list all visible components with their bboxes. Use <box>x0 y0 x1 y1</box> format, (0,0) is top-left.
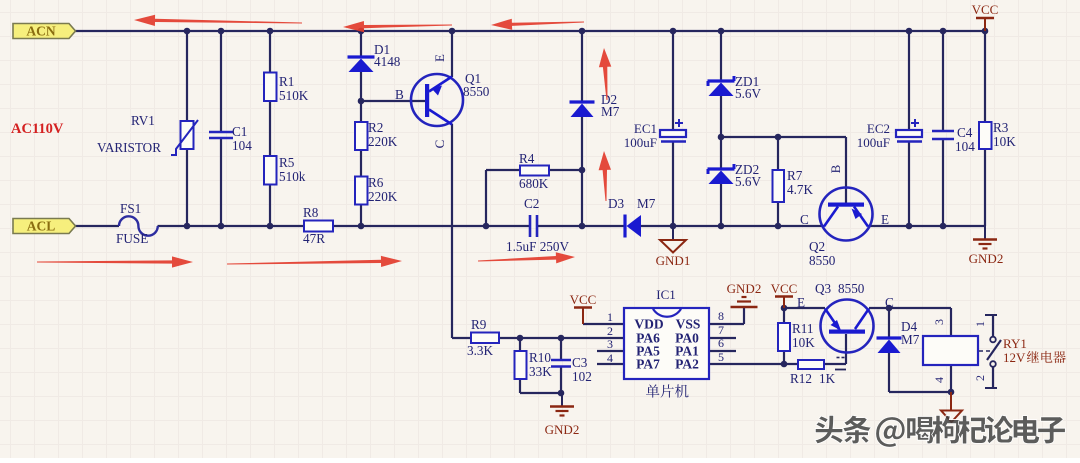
IC U1 microcontroller box <box>624 308 709 379</box>
svg-text:R1: R1 <box>279 74 294 89</box>
varistor RV1 <box>181 121 194 149</box>
svg-text:M7: M7 <box>901 332 920 347</box>
wire R10 column <box>519 338 521 351</box>
svg-text:R8: R8 <box>303 205 319 220</box>
svg-text:C3: C3 <box>572 355 588 370</box>
svg-text:VDD: VDD <box>634 317 663 332</box>
svg-text:R10: R10 <box>529 350 551 365</box>
svg-text:1: 1 <box>607 310 613 324</box>
wire relay pin 3 lead <box>950 308 952 336</box>
wire VCC to IC1 pin 1 <box>583 323 624 325</box>
svg-text:104: 104 <box>955 139 975 154</box>
svg-text:VARISTOR: VARISTOR <box>97 140 161 155</box>
resistor R9 <box>471 333 499 344</box>
svg-text:8550: 8550 <box>838 281 865 296</box>
svg-text:4: 4 <box>607 351 613 365</box>
wire C2 to D3 <box>538 225 624 227</box>
wire R8 to C2 <box>333 225 529 227</box>
electrolytic capacitor EC1 <box>660 130 686 137</box>
wire Q2 emitter to GND2 rail <box>868 225 985 227</box>
IC1 pin 7 stub <box>709 337 736 339</box>
wire C4 column <box>942 31 944 131</box>
capacitor C2 <box>529 215 532 237</box>
resistor R1 <box>264 73 277 102</box>
svg-text:2: 2 <box>607 324 613 338</box>
junction dots on ACL rail <box>184 223 191 230</box>
wire Q1 collector down to R9 row <box>451 124 453 338</box>
Q3 base pin mark <box>835 369 846 371</box>
zener diode ZD1 <box>708 79 735 82</box>
svg-text:B: B <box>395 87 404 102</box>
fuse FS1 <box>119 216 158 235</box>
junction dot C3 bottom <box>558 390 565 397</box>
svg-text:680K: 680K <box>519 176 549 191</box>
red arrow ACL rail rightward 2 <box>227 256 402 267</box>
svg-text:4.7K: 4.7K <box>787 182 813 197</box>
svg-text:R2: R2 <box>368 120 383 135</box>
svg-text:R9: R9 <box>471 317 487 332</box>
svg-text:C: C <box>800 212 809 227</box>
red arrow top rail leftward 2 <box>343 21 452 32</box>
svg-text:10K: 10K <box>792 335 815 350</box>
svg-text:VSS: VSS <box>676 317 701 332</box>
svg-text:R11: R11 <box>792 321 814 336</box>
IC1 pin 4 stub <box>597 363 624 365</box>
svg-text:8: 8 <box>718 309 724 323</box>
svg-text:ACN: ACN <box>26 24 55 39</box>
junction dot Q1 base at D1 <box>358 98 365 105</box>
ground GND2 at IC1 pin 8 <box>742 296 747 298</box>
svg-text:IC1: IC1 <box>656 287 676 302</box>
resistor R5 <box>264 156 277 185</box>
svg-text:12V: 12V <box>1003 350 1026 365</box>
svg-text:FS1: FS1 <box>120 201 141 216</box>
svg-text:10K: 10K <box>993 134 1016 149</box>
relay RY1 coil <box>923 336 978 365</box>
resistor R12 <box>798 360 824 369</box>
svg-text:4: 4 <box>932 377 946 383</box>
junction dot relay pin 4 <box>948 389 955 396</box>
terminal ACL <box>13 219 76 234</box>
relay switch blade <box>987 340 1001 360</box>
wire zener junction to Q2 base <box>721 136 846 138</box>
svg-text:220K: 220K <box>368 189 398 204</box>
svg-text:D3: D3 <box>608 196 625 211</box>
svg-text:EC2: EC2 <box>867 121 890 136</box>
capacitor C3 <box>551 359 571 362</box>
svg-text:7: 7 <box>718 323 724 337</box>
junction dots on top rail <box>184 28 191 35</box>
watermark toutiao <box>815 415 843 443</box>
capacitor C1 <box>209 131 233 134</box>
wire IC1 pin 5 to R12 <box>709 363 798 365</box>
svg-text:C1: C1 <box>232 124 247 139</box>
svg-text:R4: R4 <box>519 151 535 166</box>
svg-text:3: 3 <box>932 319 946 325</box>
junction dot R11 bottom <box>781 361 788 368</box>
svg-text:M7: M7 <box>601 104 620 119</box>
svg-text:RV1: RV1 <box>131 113 155 128</box>
svg-text:GND2: GND2 <box>727 281 762 296</box>
junction dot R4 at D2 column <box>579 167 586 174</box>
svg-text:PA7: PA7 <box>636 357 660 372</box>
diode D2 <box>570 100 595 103</box>
svg-text:R7: R7 <box>787 168 803 183</box>
IC1 pin 6 stub <box>709 350 736 352</box>
svg-text:GND2: GND2 <box>545 422 580 437</box>
resistor R7 <box>773 170 785 202</box>
svg-text:M7: M7 <box>637 196 656 211</box>
svg-text:ACL: ACL <box>27 219 56 234</box>
wire R10 to C3 ground row <box>520 392 562 394</box>
svg-text:3: 3 <box>607 337 613 351</box>
svg-text:6: 6 <box>718 336 724 350</box>
svg-text:GND1: GND1 <box>656 253 691 268</box>
svg-text:C2: C2 <box>524 196 539 211</box>
wire R3 column <box>984 31 986 122</box>
IC1 pin 8 stub to GND2 <box>709 323 744 325</box>
svg-text:8550: 8550 <box>809 253 836 268</box>
svg-text:102: 102 <box>572 369 592 384</box>
svg-text:4148: 4148 <box>374 54 401 69</box>
transistor Q2 <box>820 188 873 241</box>
wire EC1 column <box>672 31 674 130</box>
wire EC2 column <box>908 31 910 130</box>
wire R4 left branch <box>486 169 520 171</box>
red arrow upward at D2 <box>599 48 611 100</box>
ground below relay <box>950 392 952 410</box>
resistor R2 <box>355 122 368 150</box>
wire ACL rail left segment <box>75 225 119 227</box>
svg-text:1K: 1K <box>819 371 836 386</box>
resistor R3 <box>979 122 992 149</box>
wire D3 to Q2 collector <box>640 225 824 227</box>
wire R1 R5 column <box>269 31 271 73</box>
red arrow top rail leftward 1 <box>134 15 302 26</box>
svg-text:510K: 510K <box>279 88 309 103</box>
svg-text:E: E <box>432 54 447 62</box>
wire R9 to IC1 pin 2 <box>499 337 624 339</box>
wire R7 column <box>777 137 779 170</box>
svg-text:GND2: GND2 <box>969 251 1004 266</box>
svg-text:R12: R12 <box>790 371 812 386</box>
svg-text:5: 5 <box>718 350 724 364</box>
resistor R8 <box>304 221 333 232</box>
svg-text:Q3: Q3 <box>815 281 832 296</box>
wire Q1 emitter to top rail <box>451 31 453 77</box>
svg-text:AC110V: AC110V <box>11 121 64 137</box>
wire R4 right to D2 column <box>549 169 582 171</box>
wire Q3 collector to relay pin 3 <box>869 307 951 309</box>
wire R12 to Q3 base <box>824 363 846 365</box>
svg-text:100uF: 100uF <box>624 135 657 150</box>
svg-text:B: B <box>828 164 843 173</box>
transistor Q1 <box>411 74 463 126</box>
svg-text:1: 1 <box>973 321 987 327</box>
svg-text:33K: 33K <box>529 364 552 379</box>
svg-text:VCC: VCC <box>972 2 999 17</box>
svg-text:E: E <box>797 295 805 310</box>
wire R11 column <box>783 308 785 323</box>
wire top ACN rail <box>75 30 985 32</box>
svg-text:47R: 47R <box>303 231 325 246</box>
svg-text:3.3K: 3.3K <box>467 343 493 358</box>
wire D4 to relay pin 4 row <box>889 391 951 393</box>
resistor R11 <box>778 323 790 351</box>
svg-text:R5: R5 <box>279 155 295 170</box>
transistor Q3 <box>821 300 874 353</box>
relay switch contact pin 2 <box>990 361 996 367</box>
svg-text:C4: C4 <box>957 125 973 140</box>
resistor R6 <box>355 177 368 205</box>
wire C1 column <box>220 31 222 132</box>
relay switch contact pin 1 <box>985 314 997 316</box>
wire relay pin 4 lead <box>950 365 952 392</box>
junction dot zener divider <box>718 134 725 141</box>
junction dot C3 top <box>558 335 565 342</box>
svg-text:Q2: Q2 <box>809 239 825 254</box>
junction dot R7 top <box>775 134 782 141</box>
svg-text:EC1: EC1 <box>634 121 657 136</box>
wire Q1 base <box>361 100 425 102</box>
wire ACL fuse to R8 <box>158 225 305 227</box>
junction dot D4 top <box>886 305 893 312</box>
ground GND1 <box>672 226 674 240</box>
wire C3 column <box>560 338 562 359</box>
diode D1 <box>348 55 375 58</box>
svg-text:1.5uF 250V: 1.5uF 250V <box>506 239 569 254</box>
svg-text:510k: 510k <box>279 169 306 184</box>
wire ZD1 ZD2 column <box>720 31 722 81</box>
red arrow upward at D3 <box>599 151 611 201</box>
svg-text:5.6V: 5.6V <box>735 86 761 101</box>
svg-text:R3: R3 <box>993 120 1009 135</box>
junction dot R10 top <box>517 335 524 342</box>
junction dot VCC Q3 emitter <box>781 305 788 312</box>
svg-text:E: E <box>881 212 889 227</box>
diode D3 <box>623 215 626 238</box>
svg-text:8550: 8550 <box>463 84 490 99</box>
electrolytic capacitor EC2 <box>896 130 922 137</box>
svg-text:220K: 220K <box>368 134 398 149</box>
wire D4 column <box>888 308 890 337</box>
zener diode ZD2 <box>708 167 735 170</box>
svg-text:104: 104 <box>232 138 252 153</box>
svg-text:2: 2 <box>973 375 987 381</box>
red arrow ACL rail rightward 1 <box>37 256 193 267</box>
wire RV1 column <box>186 31 188 121</box>
svg-text:5.6V: 5.6V <box>735 174 761 189</box>
IC1 chinese label MCU <box>646 384 659 397</box>
diode D4 <box>877 336 902 339</box>
svg-text:VCC: VCC <box>570 292 597 307</box>
wire D1 R2 R6 column <box>360 31 362 56</box>
svg-text:FUSE: FUSE <box>116 231 148 246</box>
svg-text:C: C <box>432 140 447 149</box>
ground GND2 top right <box>984 226 986 239</box>
wire D2 column <box>581 31 583 101</box>
IC1 pin 3 stub <box>597 350 624 352</box>
red arrow ACL rail rightward 3 <box>478 252 575 263</box>
wire VCC to Q3 emitter <box>784 307 825 309</box>
terminal ACN <box>13 24 76 39</box>
svg-text:VCC: VCC <box>771 281 798 296</box>
svg-text:100uF: 100uF <box>857 135 890 150</box>
ground GND2 below C3 <box>561 393 563 406</box>
svg-text:C: C <box>885 295 894 310</box>
red arrow top rail leftward 3 <box>491 19 584 30</box>
resistor R4 <box>520 166 549 176</box>
svg-text:R6: R6 <box>368 175 384 190</box>
capacitor C4 <box>932 130 954 133</box>
resistor R10 <box>515 351 527 379</box>
svg-text:PA2: PA2 <box>675 357 699 372</box>
svg-text:RY1: RY1 <box>1003 336 1027 351</box>
